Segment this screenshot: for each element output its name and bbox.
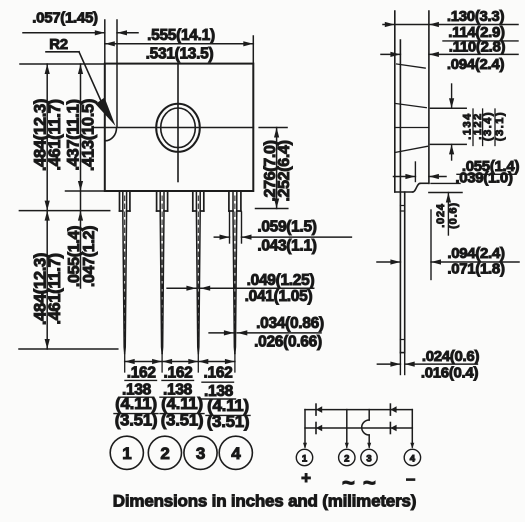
svg-text:2: 2	[344, 454, 349, 465]
svg-text:3: 3	[366, 454, 371, 465]
svg-text:(3.51): (3.51)	[207, 412, 250, 431]
svg-text:(3.51): (3.51)	[115, 410, 158, 429]
svg-text:.059(1.5): .059(1.5)	[257, 219, 316, 236]
svg-text:+: +	[301, 469, 311, 488]
svg-text:(3.1): (3.1)	[494, 111, 506, 141]
svg-text:.016(0.4): .016(0.4)	[421, 365, 479, 382]
svg-text:.461(11.7): .461(11.7)	[46, 99, 64, 170]
svg-text:3: 3	[196, 444, 205, 463]
svg-text:.110(2.8): .110(2.8)	[449, 38, 506, 55]
svg-text:.413(10.5): .413(10.5)	[79, 99, 97, 171]
svg-text:.461(11.7): .461(11.7)	[46, 253, 64, 324]
svg-text:.049(1.25): .049(1.25)	[247, 272, 315, 289]
svg-text:.252(6.4): .252(6.4)	[276, 140, 293, 201]
svg-text:2: 2	[160, 444, 169, 463]
svg-text:.034(0.86): .034(0.86)	[256, 315, 324, 332]
svg-text:.531(13.5): .531(13.5)	[146, 45, 214, 62]
svg-text:.024(0.6): .024(0.6)	[422, 348, 480, 365]
svg-text:4: 4	[231, 444, 241, 463]
svg-text:.071(1.8): .071(1.8)	[447, 260, 505, 277]
svg-text:.057(1.45): .057(1.45)	[32, 10, 98, 27]
svg-text:.162: .162	[204, 365, 233, 382]
svg-text:.094(2.4): .094(2.4)	[447, 245, 505, 262]
svg-text:.162: .162	[164, 365, 193, 382]
svg-text:4: 4	[410, 454, 416, 465]
svg-text:.026(0.66): .026(0.66)	[254, 333, 322, 350]
svg-text:.041(1.05): .041(1.05)	[245, 288, 313, 305]
svg-text:Dimensions in inches and (mili: Dimensions in inches and (milimeters)	[113, 492, 416, 511]
svg-text:1: 1	[122, 444, 131, 463]
svg-text:R2: R2	[49, 36, 68, 53]
svg-text:.024: .024	[435, 203, 447, 228]
svg-text:(3.4): (3.4)	[482, 111, 494, 141]
svg-text:.043(1.1): .043(1.1)	[257, 238, 316, 255]
svg-text:.130(3.3): .130(3.3)	[447, 8, 505, 25]
svg-text:.162: .162	[127, 365, 156, 382]
svg-text:(0.6): (0.6)	[447, 202, 459, 229]
svg-text:.094(2.4): .094(2.4)	[447, 56, 505, 73]
svg-text:1: 1	[302, 454, 308, 465]
svg-text:(3.51): (3.51)	[161, 410, 204, 429]
svg-text:.555(14.1): .555(14.1)	[147, 27, 215, 44]
svg-text:.039(1.0): .039(1.0)	[455, 169, 513, 186]
svg-text:.047(1.2): .047(1.2)	[81, 226, 98, 287]
